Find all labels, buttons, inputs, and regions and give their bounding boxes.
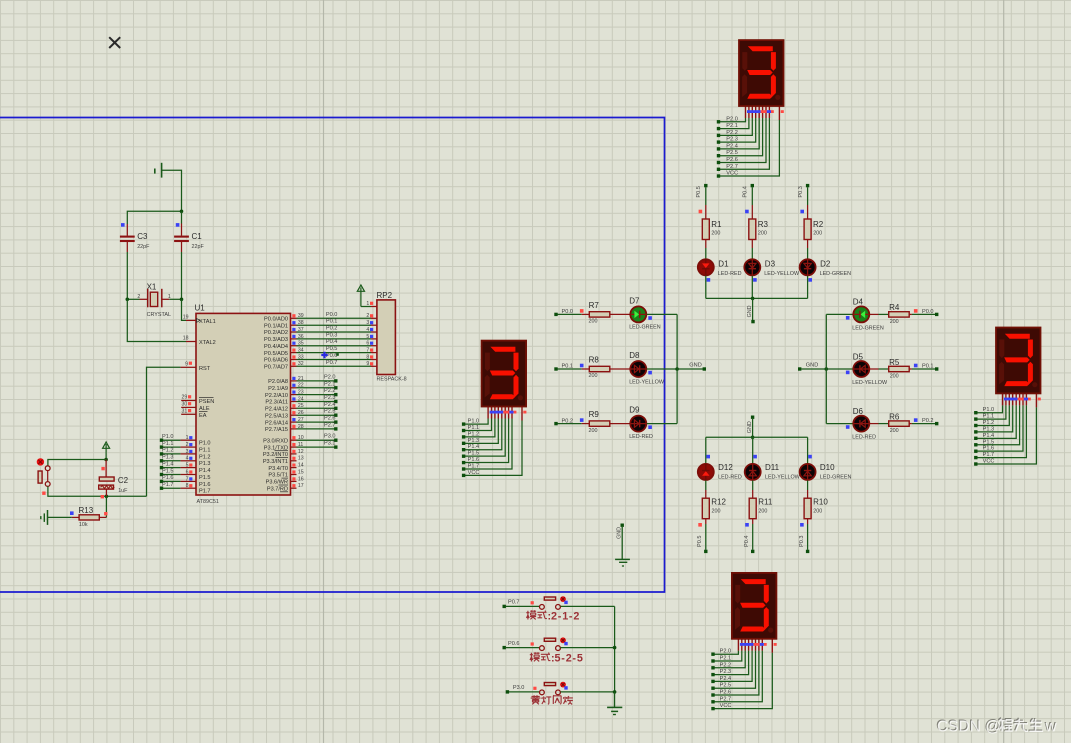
svg-text:CSDN @: CSDN @: [937, 719, 1001, 736]
wire P0.3 pin 36 to RP2 pin 5: [291, 332, 377, 339]
pin 7 P1.6 with net label: [160, 475, 196, 483]
svg-text:-: -: [558, 610, 562, 622]
cursor marker: [321, 352, 339, 358]
svg-text:LED-YELLOW: LED-YELLOW: [629, 379, 665, 385]
svg-text:5: 5: [366, 334, 369, 340]
svg-text:D8: D8: [629, 351, 640, 360]
wire D12 to R12: [705, 481, 707, 499]
node P0.5 terminal (bottom): [697, 535, 708, 553]
wire P0.2 to R9: [558, 423, 582, 425]
svg-text:P0.4: P0.4: [744, 535, 750, 547]
svg-text:35: 35: [298, 341, 304, 347]
wire P0.4 to R3: [751, 187, 753, 219]
svg-text:D2: D2: [820, 259, 831, 268]
svg-text:P2.5/A13: P2.5/A13: [265, 413, 288, 419]
svg-text:P3.3/INT1: P3.3/INT1: [263, 459, 288, 465]
svg-text:R8: R8: [589, 356, 600, 365]
wire D6 to R6: [870, 423, 889, 425]
wire RST to chip: [147, 367, 181, 496]
svg-text:U1: U1: [195, 303, 206, 312]
svg-text:P2.2: P2.2: [726, 130, 738, 136]
wire P0.5 to R1: [705, 187, 707, 219]
svg-text:1uF: 1uF: [118, 488, 128, 494]
led D8 LED-YELLOW: [629, 351, 665, 385]
svg-text:P2.4: P2.4: [726, 143, 738, 149]
svg-text:PSEN: PSEN: [199, 399, 214, 405]
wire P2.7 pin 28 net label: [291, 422, 338, 430]
pin 29 PSEN: [181, 395, 196, 401]
svg-text:GND: GND: [616, 527, 622, 539]
svg-text:200: 200: [813, 231, 822, 237]
push button RESET: [37, 458, 50, 495]
svg-text:D3: D3: [765, 259, 776, 268]
led D5 LED-YELLOW: [846, 352, 888, 386]
wire P0.4 pin 35 to RP2 pin 6: [291, 339, 377, 346]
svg-text:13: 13: [298, 456, 304, 462]
resistor R5 200: [889, 358, 935, 380]
svg-text:P1.2: P1.2: [199, 454, 211, 460]
svg-text:LED-GREEN: LED-GREEN: [629, 325, 661, 331]
svg-text:P0.6/AD6: P0.6/AD6: [264, 358, 288, 364]
svg-text:P0.3: P0.3: [798, 186, 804, 198]
svg-text:R13: R13: [79, 506, 94, 515]
svg-text:P1.4: P1.4: [162, 461, 174, 467]
svg-text:LED-RED: LED-RED: [629, 434, 653, 440]
node GND stub (mid): [615, 524, 630, 567]
capacitor C2 1uF: [99, 460, 129, 497]
svg-text:P0.2: P0.2: [326, 326, 338, 332]
svg-text:P0.7: P0.7: [508, 600, 520, 606]
resistor R10 200: [800, 498, 828, 550]
svg-text:LED-YELLOW: LED-YELLOW: [765, 474, 801, 480]
svg-text:LED-YELLOW: LED-YELLOW: [764, 271, 800, 277]
svg-text:9: 9: [366, 361, 369, 367]
led D12 LED-RED: [698, 463, 742, 480]
svg-text:P1.1: P1.1: [162, 441, 174, 447]
svg-text:P0.0: P0.0: [922, 309, 934, 315]
svg-text:P1.4: P1.4: [983, 433, 995, 439]
svg-text:XTAL1: XTAL1: [199, 319, 216, 325]
svg-text:P1.5: P1.5: [199, 475, 211, 481]
svg-text:P0.2: P0.2: [922, 418, 934, 424]
wire middle GND bus: [675, 314, 704, 423]
svg-text:P1.6: P1.6: [468, 457, 480, 463]
svg-text:P0.1/AD1: P0.1/AD1: [264, 323, 288, 329]
svg-text:P2.6: P2.6: [726, 157, 738, 163]
pin 19 XTAL1: [183, 314, 196, 320]
svg-text:16: 16: [298, 476, 304, 482]
svg-text:P0.5/AD5: P0.5/AD5: [264, 351, 288, 357]
wire D7 to GND bus: [647, 313, 677, 315]
wire P2.3 pin 24 net label: [291, 395, 338, 403]
svg-text:19: 19: [183, 314, 189, 320]
svg-text:3: 3: [366, 320, 369, 326]
svg-text:P1.5: P1.5: [468, 451, 480, 457]
node P0.2 terminal: [554, 418, 573, 425]
svg-text:C2: C2: [118, 476, 129, 485]
wire D4 to R4: [870, 313, 889, 315]
pin 6 P1.5 with net label: [160, 468, 196, 476]
node P0.4 terminal (top): [743, 184, 755, 198]
wire VCC to RP2 pin1: [361, 306, 371, 308]
svg-text:33: 33: [298, 354, 304, 360]
svg-text:P1.5: P1.5: [983, 439, 995, 445]
node P0.3 terminal (bottom): [799, 535, 810, 553]
wire button to RST node: [48, 486, 147, 496]
svg-text:P2.7/A15: P2.7/A15: [265, 427, 288, 433]
svg-text:12: 12: [298, 449, 304, 455]
led D11 LED-YELLOW: [745, 463, 801, 480]
svg-text:P2.6: P2.6: [324, 416, 336, 422]
svg-text:2: 2: [573, 610, 579, 622]
wire D1 to top bus: [705, 276, 707, 299]
svg-text:23: 23: [298, 390, 304, 396]
svg-text:D7: D7: [629, 296, 640, 305]
svg-text:P0.7: P0.7: [326, 360, 338, 366]
wire crystal pin2: [126, 298, 148, 302]
svg-text:21: 21: [298, 376, 304, 382]
ground (crystal top): [155, 163, 162, 178]
svg-text:P1.6: P1.6: [199, 482, 211, 488]
resistor R4 200: [889, 303, 935, 325]
svg-text:R3: R3: [758, 220, 769, 229]
wire D9 to GND bus: [647, 423, 677, 425]
svg-text:R9: R9: [589, 410, 600, 419]
svg-text:VCC: VCC: [468, 470, 480, 476]
ground (R13): [41, 510, 48, 525]
resistor R7 200: [580, 301, 630, 325]
svg-text:GND: GND: [689, 363, 701, 369]
ground (buttons): [607, 692, 622, 714]
svg-text:CRYSTAL: CRYSTAL: [147, 312, 171, 318]
node P0.1 terminal (right): [922, 363, 938, 370]
push button mode 5-2-5 (P0.6): [503, 637, 615, 650]
svg-text:R12: R12: [711, 498, 726, 507]
svg-text:P1.0: P1.0: [162, 434, 174, 440]
svg-text:200: 200: [758, 231, 767, 237]
svg-text:P3.0/RXD: P3.0/RXD: [263, 438, 288, 444]
wire D8 to GND bus: [647, 368, 677, 370]
svg-text:RP2: RP2: [377, 291, 393, 300]
wire right GND bus: [801, 314, 852, 423]
wire bus to D11: [753, 437, 757, 463]
svg-text:25: 25: [298, 403, 304, 409]
svg-text:31: 31: [182, 409, 188, 415]
power flag VCC (RP2): [357, 285, 364, 307]
led D10 LED-GREEN: [800, 463, 852, 480]
wire top GND bus: [706, 297, 808, 321]
resistor R13 10k: [48, 506, 108, 528]
svg-text:P0.3/AD3: P0.3/AD3: [264, 337, 288, 343]
svg-text:P2.0: P2.0: [324, 374, 336, 380]
svg-text:P1.0: P1.0: [199, 441, 211, 447]
svg-text:34: 34: [298, 348, 304, 354]
label mode 5-2-5: [530, 652, 583, 664]
junction crystal net: [180, 210, 184, 214]
svg-text:RST: RST: [199, 366, 211, 372]
svg-text:AT89C51: AT89C51: [197, 499, 219, 505]
pin 31 EA: [181, 409, 196, 415]
svg-text:LED-RED: LED-RED: [852, 435, 876, 441]
svg-text:D5: D5: [853, 352, 864, 361]
svg-text:P2.1: P2.1: [720, 656, 732, 662]
led D9 LED-RED: [629, 406, 653, 440]
node GND terminal (top cluster): [747, 305, 755, 323]
svg-text:5: 5: [186, 463, 189, 469]
wire bus to D12: [706, 437, 710, 463]
wire C3 to crystal node: [126, 252, 128, 299]
svg-text:P0.2/AD2: P0.2/AD2: [264, 330, 288, 336]
svg-text:P0.4: P0.4: [743, 186, 749, 198]
push button yellow blink (P3.0): [506, 682, 615, 695]
resistor R2 200: [800, 210, 823, 259]
pin 2 P1.1 with net label: [160, 441, 196, 449]
svg-text:1: 1: [366, 301, 369, 307]
svg-text:P2.3/A11: P2.3/A11: [265, 400, 288, 406]
svg-text:VCC: VCC: [720, 703, 732, 709]
node P0.1 terminal: [554, 364, 573, 371]
svg-text:8: 8: [366, 354, 369, 360]
svg-text:22pF: 22pF: [137, 244, 150, 250]
svg-text:P2.4/A12: P2.4/A12: [265, 407, 288, 413]
label yellow blink: [531, 695, 573, 704]
junction VCC node: [104, 458, 108, 462]
push button mode 2-1-2 (P0.7): [503, 596, 615, 609]
svg-text:D6: D6: [853, 407, 864, 416]
wire P0.3 to R2: [807, 187, 809, 219]
svg-text:P1.2: P1.2: [983, 420, 995, 426]
svg-text:P1.7: P1.7: [468, 463, 480, 469]
svg-text:200: 200: [890, 319, 899, 325]
svg-text:P2.6: P2.6: [720, 690, 732, 696]
wire P0.6 pin 33 to RP2 pin 8: [291, 353, 377, 360]
svg-text:LED-GREEN: LED-GREEN: [820, 474, 852, 480]
pin 9 RST: [185, 361, 196, 367]
svg-text:P2.7: P2.7: [324, 422, 336, 428]
svg-text:37: 37: [298, 327, 304, 333]
capacitor C1: [174, 211, 204, 252]
svg-text:200: 200: [589, 373, 598, 379]
power flag VCC (reset): [103, 442, 110, 460]
svg-text:28: 28: [298, 424, 304, 430]
pin 1 P1.0 with net label: [160, 434, 196, 442]
wire P0.0 to R7: [558, 313, 582, 315]
svg-text:P2.0: P2.0: [726, 116, 738, 122]
wire P2.6 pin 27 net label: [291, 416, 338, 424]
svg-text:P1.1: P1.1: [983, 414, 995, 420]
svg-text:LED-YELLOW: LED-YELLOW: [852, 380, 888, 386]
svg-text:VCC: VCC: [983, 458, 995, 464]
svg-text:P1.4: P1.4: [468, 444, 480, 450]
node GND terminal (middle): [689, 363, 706, 371]
svg-text:9: 9: [185, 361, 188, 367]
wire XTAL1 net: [182, 299, 187, 320]
svg-text:P2.2/A10: P2.2/A10: [265, 393, 288, 399]
capacitor C3: [120, 223, 150, 252]
svg-text:C1: C1: [192, 232, 203, 241]
wire D3 to top bus: [751, 276, 753, 299]
svg-text:10: 10: [298, 435, 304, 441]
led D7 LED-GREEN: [629, 296, 661, 330]
node P0.3 terminal (top): [798, 184, 810, 198]
svg-text:36: 36: [298, 334, 304, 340]
svg-text:P1.3: P1.3: [199, 461, 211, 467]
svg-text:P1.6: P1.6: [983, 446, 995, 452]
svg-text:P0.0/AD0: P0.0/AD0: [264, 317, 288, 323]
svg-text:P2.3: P2.3: [720, 669, 732, 675]
svg-text:14: 14: [298, 463, 304, 469]
svg-text:D9: D9: [629, 406, 640, 415]
svg-text:200: 200: [890, 373, 899, 379]
svg-text:P0.3: P0.3: [799, 535, 805, 547]
crystal X1: [137, 283, 171, 318]
svg-text:R11: R11: [758, 498, 773, 507]
pin 15 P3.5: [291, 469, 304, 475]
node GND terminal (right): [798, 363, 818, 371]
wire D2 to top bus: [807, 276, 809, 299]
svg-text:P1.3: P1.3: [162, 455, 174, 461]
svg-text:2: 2: [551, 610, 557, 622]
led D2 LED-GREEN: [800, 259, 852, 281]
svg-text:R6: R6: [889, 412, 900, 421]
svg-text:P0.5: P0.5: [697, 535, 703, 547]
svg-text:LED-GREEN: LED-GREEN: [852, 325, 884, 331]
svg-text:D4: D4: [853, 298, 864, 307]
svg-text:4: 4: [186, 456, 189, 462]
svg-text:38: 38: [298, 320, 304, 326]
svg-text:R1: R1: [711, 220, 722, 229]
svg-text:P2.0/A8: P2.0/A8: [268, 379, 288, 385]
svg-text:XTAL2: XTAL2: [199, 340, 216, 346]
svg-text:P2.3: P2.3: [726, 137, 738, 143]
label mode 2-1-2: [526, 610, 579, 622]
svg-text:P3.4/T0: P3.4/T0: [268, 466, 288, 472]
svg-text:R7: R7: [589, 301, 600, 310]
svg-text:P1.7: P1.7: [983, 452, 995, 458]
svg-text:26: 26: [298, 410, 304, 416]
svg-text:P2.1: P2.1: [324, 381, 336, 387]
svg-text:R2: R2: [813, 220, 824, 229]
svg-text:-: -: [572, 652, 576, 664]
svg-text:ALE: ALE: [199, 406, 210, 412]
svg-text:17: 17: [298, 483, 304, 489]
resistor R1 200: [699, 210, 722, 259]
svg-text:6: 6: [186, 469, 189, 475]
wire bus to D10: [808, 437, 812, 463]
pin 17 P3.7: [291, 483, 304, 489]
watermark CSDN: [936, 718, 1057, 735]
svg-text:1: 1: [186, 435, 189, 441]
node P0.5 terminal (top): [696, 184, 708, 198]
svg-text:P2.3: P2.3: [324, 395, 336, 401]
svg-text:D12: D12: [718, 463, 733, 472]
wire D5 to R5: [870, 368, 889, 370]
svg-text:P0.4: P0.4: [326, 339, 338, 345]
wire D11 to R11: [752, 481, 754, 499]
resistor R12 200: [698, 498, 726, 550]
svg-text:P1.3: P1.3: [468, 438, 480, 444]
7-segment display bottom (digit 3): [711, 573, 776, 710]
svg-text:D10: D10: [820, 463, 835, 472]
svg-text:P0.1: P0.1: [326, 319, 338, 325]
svg-text:RESPACK-8: RESPACK-8: [377, 376, 407, 382]
led D4 LED-GREEN: [846, 298, 884, 332]
svg-text:200: 200: [589, 319, 598, 325]
wire bottom GND bus: [706, 419, 808, 439]
svg-text:2: 2: [566, 652, 572, 664]
svg-text:LED-RED: LED-RED: [718, 271, 742, 277]
wire VCC to button: [48, 460, 106, 466]
svg-text:200: 200: [890, 428, 899, 434]
svg-text:3: 3: [186, 449, 189, 455]
node P0.0 terminal: [554, 309, 573, 316]
svg-text:P2.2: P2.2: [324, 388, 336, 394]
node P0.2 terminal (right): [922, 418, 938, 425]
resistor R6 200: [889, 412, 935, 434]
svg-text:15: 15: [298, 469, 304, 475]
svg-text:22pF: 22pF: [192, 244, 205, 250]
svg-text:24: 24: [298, 396, 304, 402]
svg-text:D11: D11: [765, 463, 780, 472]
svg-text:P2.7: P2.7: [720, 696, 732, 702]
svg-text:P1.6: P1.6: [162, 475, 174, 481]
svg-text:P3.0: P3.0: [324, 434, 336, 440]
svg-text:P2.5: P2.5: [726, 150, 738, 156]
svg-text:P0.5: P0.5: [326, 346, 338, 352]
svg-text:7: 7: [186, 476, 189, 482]
wire P2.4 pin 25 net label: [291, 402, 338, 410]
svg-text:39: 39: [298, 313, 304, 319]
led D3 LED-YELLOW: [744, 259, 800, 281]
svg-text:8: 8: [186, 483, 189, 489]
svg-text:-: -: [561, 652, 565, 664]
svg-text:P2.0: P2.0: [720, 649, 732, 655]
svg-text:10k: 10k: [79, 522, 88, 528]
resistor R9 200: [580, 410, 630, 434]
svg-text:22: 22: [298, 383, 304, 389]
resistor R11 200: [745, 498, 773, 550]
wire P2.0 pin 21 net label: [291, 374, 338, 382]
svg-text:P2.1: P2.1: [726, 123, 738, 129]
svg-text:P3.0: P3.0: [513, 685, 525, 691]
svg-text:LED-GREEN: LED-GREEN: [820, 271, 852, 277]
svg-text:P0.0: P0.0: [326, 312, 338, 318]
wire P3.0 pin 10 net label: [291, 434, 338, 442]
wire P0.2 pin 37 to RP2 pin 4: [291, 326, 377, 333]
svg-text:4: 4: [366, 327, 369, 333]
wire P0.7 pin 32 to RP2 pin 9: [291, 360, 377, 367]
7-segment display right (digit 3): [974, 328, 1041, 466]
svg-text:32: 32: [298, 361, 304, 367]
junction RST node: [101, 495, 109, 499]
svg-text:P1.2: P1.2: [468, 431, 480, 437]
pin 3 P1.2 with net label: [160, 448, 196, 456]
svg-text:P0.3: P0.3: [326, 332, 338, 338]
svg-text:C3: C3: [137, 232, 148, 241]
svg-text:5: 5: [577, 652, 583, 664]
svg-text:200: 200: [712, 509, 721, 515]
svg-text:200: 200: [589, 428, 598, 434]
svg-text:P2.6/A14: P2.6/A14: [265, 420, 288, 426]
resistor R8 200: [580, 356, 630, 380]
svg-text:30: 30: [182, 402, 188, 408]
svg-text:P0.7/AD7: P0.7/AD7: [264, 365, 288, 371]
svg-text:P1.7: P1.7: [199, 489, 211, 495]
svg-text:18: 18: [183, 336, 189, 342]
wire P2.2 pin 23 net label: [291, 388, 338, 396]
svg-text:P1.2: P1.2: [162, 448, 174, 454]
svg-text:P1.5: P1.5: [162, 468, 174, 474]
